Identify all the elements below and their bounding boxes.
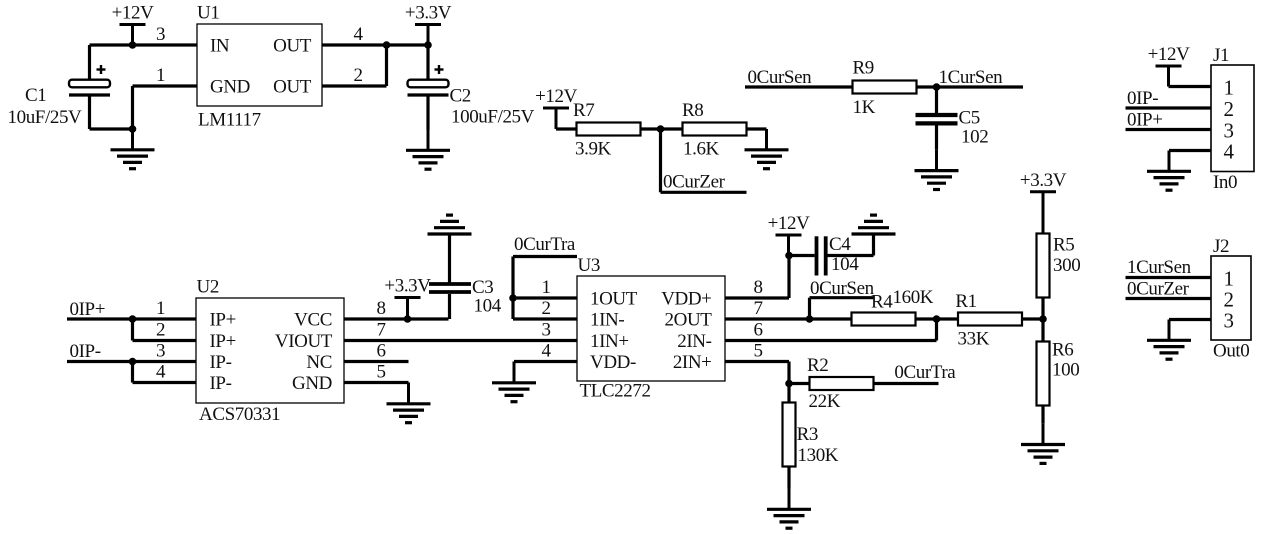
J1 pin number 1 — [1223, 76, 1233, 100]
svg-text:8: 8 — [753, 277, 762, 298]
svg-text:VDD+: VDD+ — [661, 289, 711, 310]
svg-text:130K: 130K — [798, 445, 839, 466]
capacitor C3 top lead — [448, 234, 451, 283]
capacitor C1 top lead — [88, 45, 91, 80]
svg-text:33K: 33K — [958, 329, 990, 350]
svg-text:0CurZer: 0CurZer — [663, 172, 726, 193]
wire 0IP- to U2 pin3 — [67, 360, 196, 363]
net label 1CurSen — [939, 67, 1004, 88]
U1 pin name IN — [210, 36, 230, 57]
J2 designator — [1213, 236, 1229, 257]
U1 pin number 2 — [353, 65, 362, 86]
wire U2 pin2 — [133, 319, 197, 341]
svg-text:6: 6 — [376, 341, 385, 362]
svg-text:0CurTra: 0CurTra — [514, 234, 576, 255]
svg-text:U2: U2 — [197, 277, 219, 298]
U3 pin name 2IN- — [677, 331, 711, 352]
svg-text:2: 2 — [353, 65, 362, 86]
wire C4 right lead — [828, 234, 874, 256]
U3 pin name VDD+ — [661, 289, 711, 310]
net label 0CurTra (U3) — [514, 234, 576, 255]
U2 pin name IP- (3) — [210, 352, 232, 373]
svg-text:GND: GND — [210, 77, 250, 98]
U3 pin number 1 — [541, 277, 550, 298]
svg-text:4: 4 — [541, 341, 551, 362]
svg-text:0CurSen: 0CurSen — [810, 278, 875, 299]
J2 pin number 2 — [1223, 288, 1233, 312]
wire U3 2IN- pin6 — [725, 319, 937, 341]
net label 0CurTra (R2) — [894, 362, 956, 383]
resistor R3 labels — [797, 424, 839, 466]
svg-text:J1: J1 — [1213, 45, 1229, 66]
svg-text:1CurSen: 1CurSen — [939, 67, 1004, 88]
U2 part ACS70331 — [199, 404, 280, 425]
U3 pin name 2OUT — [665, 310, 713, 331]
power +3.3V rail (U2) — [384, 276, 431, 320]
wire R2 chain 0CurTra — [789, 382, 939, 385]
svg-text:2IN-: 2IN- — [677, 331, 711, 352]
U2 pin name VIOUT — [275, 331, 333, 352]
svg-text:0IP-: 0IP- — [1127, 88, 1158, 109]
svg-text:102: 102 — [961, 127, 988, 148]
power +3.3V rail (R5) — [1020, 170, 1067, 234]
capacitor C2 label — [450, 86, 535, 128]
U1 part LM1117 — [198, 110, 261, 131]
U3 designator — [578, 255, 600, 276]
resistor R3 — [783, 403, 796, 467]
U2 pin name IP+ (1) — [210, 310, 236, 331]
node U3 pin1 junction — [509, 294, 517, 302]
resistor R6 labels — [1052, 340, 1079, 381]
ground (R3) — [767, 489, 811, 529]
capacitor C3 labels — [472, 277, 502, 317]
svg-text:+12V: +12V — [1148, 44, 1191, 65]
svg-text:2: 2 — [1223, 97, 1233, 121]
svg-text:U1: U1 — [197, 3, 219, 24]
svg-text:0IP+: 0IP+ — [70, 299, 106, 320]
svg-text:1.6K: 1.6K — [683, 138, 720, 159]
U3 pin number 4 — [541, 341, 551, 362]
connector J1 box — [1211, 65, 1254, 172]
U2 pin name IP+ (2) — [210, 331, 236, 352]
U1 pin number 4 — [353, 24, 363, 45]
sensor U2 box — [196, 298, 344, 403]
svg-text:OUT: OUT — [273, 77, 312, 98]
wire U3 pin4 — [514, 360, 577, 364]
wire 0CurTra line — [513, 255, 577, 258]
capacitor C2 — [408, 80, 449, 95]
svg-text:7: 7 — [753, 298, 762, 319]
svg-text:2OUT: 2OUT — [665, 310, 713, 331]
net label 0IP+ (J1) — [1127, 110, 1163, 131]
svg-text:6: 6 — [753, 320, 762, 341]
capacitor C1 polarity + — [97, 65, 106, 74]
svg-text:C4: C4 — [829, 234, 851, 255]
net label 0CurSen (U3) — [810, 278, 875, 299]
U3 pin number 6 — [753, 320, 762, 341]
wire R6 top — [1041, 319, 1044, 342]
J1 name In0 — [1213, 172, 1237, 193]
capacitor C2 top lead — [426, 45, 429, 80]
svg-text:R2: R2 — [807, 355, 828, 376]
svg-text:1K: 1K — [853, 97, 876, 118]
svg-text:100uF/25V: 100uF/25V — [451, 107, 535, 128]
wire J1 pin1 — [1169, 85, 1212, 88]
wire U3 VDD+ pin8 — [725, 256, 789, 299]
svg-text:IN: IN — [210, 36, 230, 57]
net label 1CurSen (J2) — [1127, 257, 1192, 278]
power +3.3V rail (U1 output) — [405, 3, 452, 46]
svg-text:2IN+: 2IN+ — [673, 352, 712, 373]
U2 pin number 5 — [376, 362, 385, 383]
resistor R9 — [853, 81, 917, 94]
svg-text:+12V: +12V — [535, 86, 578, 107]
capacitor C1 label — [8, 85, 83, 128]
op-amp U3 box — [577, 276, 725, 381]
svg-text:300: 300 — [1053, 255, 1080, 276]
svg-text:LM1117: LM1117 — [198, 110, 261, 131]
node 2OUT junction — [806, 315, 814, 323]
U3 pin number 3 — [541, 320, 550, 341]
svg-text:GND: GND — [292, 373, 332, 394]
node VCC junction — [404, 315, 412, 323]
U2 pin number 7 — [376, 320, 385, 341]
svg-text:1IN+: 1IN+ — [590, 331, 629, 352]
svg-text:0IP+: 0IP+ — [1127, 110, 1163, 131]
svg-text:R3: R3 — [797, 424, 818, 445]
net label 0IP- (J1) — [1127, 88, 1158, 109]
ground (U2 GND) — [387, 383, 431, 423]
J1 pin number 4 — [1223, 140, 1234, 164]
ground (C5) — [915, 150, 959, 190]
svg-text:J2: J2 — [1213, 236, 1229, 257]
svg-text:3: 3 — [156, 341, 165, 362]
svg-text:OUT: OUT — [273, 36, 312, 57]
svg-text:R9: R9 — [853, 58, 874, 79]
U2 pin name GND — [292, 373, 332, 394]
wire +12V to U1 pin3 — [90, 43, 198, 46]
capacitor C5 — [916, 115, 958, 123]
svg-text:+3.3V: +3.3V — [384, 276, 431, 297]
wire R5 bottom — [1041, 298, 1044, 320]
wire J1 pin4 — [1169, 149, 1211, 152]
U3 pin number 2 — [541, 298, 550, 319]
svg-text:10uF/25V: 10uF/25V — [8, 107, 83, 128]
svg-text:In0: In0 — [1213, 172, 1237, 193]
svg-text:2: 2 — [156, 320, 165, 341]
U2 pin name VCC — [294, 310, 332, 331]
capacitor C3 bottom lead — [448, 294, 451, 319]
resistor R5 — [1037, 234, 1050, 298]
resistor R4 — [852, 313, 916, 326]
wire U3 2OUT pin7 chain — [725, 317, 958, 320]
resistor R9 labels — [853, 58, 876, 118]
wire 0CurTra to pins 1-2 — [513, 257, 577, 320]
U3 pin name 1IN+ — [590, 331, 629, 352]
svg-text:7: 7 — [376, 320, 385, 341]
node R2/R3 junction — [785, 380, 793, 388]
svg-text:TLC2272: TLC2272 — [580, 381, 651, 402]
capacitor C5 top lead — [935, 87, 938, 113]
resistor R2 — [810, 377, 874, 390]
node R9/C5 junction — [933, 83, 941, 91]
node C2 junction — [424, 41, 432, 49]
svg-text:3: 3 — [541, 320, 550, 341]
net label 0CurZer — [663, 172, 726, 193]
svg-text:VDD-: VDD- — [590, 352, 636, 373]
resistor R7 labels — [573, 100, 612, 159]
resistor R8 — [683, 123, 747, 136]
U2 pin name NC — [306, 352, 332, 373]
wire 0CurSen stub — [810, 298, 875, 319]
capacitor C1 — [69, 80, 110, 95]
wire J2 pin1 1CurSen — [1126, 276, 1212, 279]
ground (J1) — [1147, 151, 1191, 191]
wire U1 OUT pin4 — [322, 43, 428, 46]
svg-text:1: 1 — [156, 65, 165, 86]
connector J2 box — [1211, 256, 1251, 340]
svg-text:+3.3V: +3.3V — [405, 3, 452, 24]
svg-text:VCC: VCC — [294, 310, 332, 331]
U2 pin number 4 — [156, 362, 166, 383]
svg-text:U3: U3 — [578, 255, 600, 276]
svg-text:5: 5 — [376, 362, 385, 383]
wire J1 pin3 0IP+ — [1126, 128, 1212, 131]
svg-text:2: 2 — [541, 298, 550, 319]
svg-text:IP+: IP+ — [210, 310, 236, 331]
svg-text:1: 1 — [1223, 76, 1233, 100]
svg-text:+3.3V: +3.3V — [1020, 170, 1067, 191]
U3 pin number 7 — [753, 298, 762, 319]
resistor R4 labels — [871, 287, 934, 313]
wire R7-R8 chain — [556, 127, 767, 130]
capacitor C4 labels — [829, 234, 859, 275]
svg-text:0CurSen: 0CurSen — [748, 67, 813, 88]
U3 pin number 8 — [753, 277, 762, 298]
wire 0IP+ to U2 pin1 — [67, 317, 196, 320]
capacitor C4 — [817, 236, 826, 275]
resistor R8 labels — [682, 100, 720, 159]
U3 pin name 1IN- — [590, 310, 624, 331]
node +12V junction — [129, 41, 137, 49]
node C4 junction — [785, 252, 793, 260]
resistor R7 — [577, 123, 641, 136]
power +12V rail (U1 input) — [112, 3, 155, 46]
capacitor C5 bottom lead — [935, 126, 938, 150]
svg-text:0IP-: 0IP- — [70, 341, 101, 362]
wire U1 OUT pin2 — [322, 45, 387, 86]
wire U1 GND pin1 — [133, 86, 198, 129]
svg-text:R1: R1 — [955, 291, 976, 312]
power +12V rail (J1) — [1148, 44, 1191, 87]
J1 designator — [1213, 45, 1229, 66]
svg-text:IP-: IP- — [210, 373, 232, 394]
U3 pin name 2IN+ — [673, 352, 712, 373]
svg-text:1: 1 — [156, 298, 165, 319]
J2 pin number 1 — [1223, 267, 1233, 291]
wire U3 2IN+ pin5 — [725, 362, 789, 384]
svg-text:0CurZer: 0CurZer — [1127, 279, 1190, 300]
node C1/GND junction — [129, 125, 137, 133]
svg-text:100: 100 — [1052, 360, 1079, 381]
svg-text:IP-: IP- — [210, 352, 232, 373]
svg-text:1OUT: 1OUT — [590, 289, 638, 310]
svg-text:4: 4 — [156, 362, 166, 383]
svg-text:+12V: +12V — [768, 213, 811, 234]
wire J2 pin2 0CurZer — [1126, 297, 1212, 300]
U1 designator — [197, 3, 219, 24]
capacitor C3 — [429, 284, 471, 292]
wire U2 pin4 — [133, 362, 197, 383]
wire R3 top — [787, 384, 790, 403]
svg-text:3: 3 — [1223, 309, 1233, 333]
node R5/R6 junction — [1039, 315, 1047, 323]
svg-text:IP+: IP+ — [210, 331, 236, 352]
ground (U3 VDD-) — [492, 362, 536, 402]
power +12V rail (C4) — [768, 213, 811, 256]
U1 pin name OUT (top) — [273, 36, 312, 57]
svg-text:Out0: Out0 — [1213, 341, 1249, 362]
svg-text:C1: C1 — [25, 85, 46, 106]
U3 pin name VDD- — [590, 352, 636, 373]
capacitor C1 bottom lead — [90, 97, 133, 130]
power +12V rail (R7) — [535, 86, 578, 129]
wire 0CurZer stub — [661, 129, 747, 192]
node OUT pins junction — [383, 41, 391, 49]
U3 pin number 5 — [753, 341, 762, 362]
U2 pin name IP- (4) — [210, 373, 232, 394]
U2 pin number 2 — [156, 320, 165, 341]
U2 pin number 1 — [156, 298, 165, 319]
ground (C3, pointing up) — [428, 215, 472, 234]
U1 pin number 3 — [156, 24, 165, 45]
net label 0CurSen — [748, 67, 813, 88]
U1 pin name OUT (bottom) — [273, 77, 312, 98]
net label 0IP+ (U2) — [70, 299, 106, 320]
svg-text:ACS70331: ACS70331 — [199, 404, 280, 425]
ground (J2) — [1147, 320, 1191, 360]
node R7/R8 junction — [657, 125, 665, 133]
svg-text:+12V: +12V — [112, 3, 155, 24]
svg-text:1IN-: 1IN- — [590, 310, 624, 331]
wire R3 bottom — [787, 467, 790, 489]
U2 pin number 3 — [156, 341, 165, 362]
ground (U1/C1) — [111, 129, 155, 169]
node 0IP+ junction — [129, 315, 137, 323]
wire R1 to R5/R6 — [1022, 317, 1043, 320]
U1 pin name GND — [210, 77, 250, 98]
J2 pin number 3 — [1223, 309, 1233, 333]
wire R6 bottom — [1041, 406, 1044, 424]
ground (C4, pointing up) — [852, 215, 896, 234]
ground (R6) — [1021, 424, 1065, 464]
svg-text:0CurTra: 0CurTra — [894, 362, 956, 383]
U2 pin number 6 — [376, 341, 385, 362]
svg-text:R5: R5 — [1053, 234, 1074, 255]
op-amp U1 box — [197, 24, 322, 106]
U3 part TLC2272 — [580, 381, 651, 402]
resistor R1 labels — [955, 291, 989, 350]
resistor R6 — [1037, 342, 1050, 406]
resistor R2 labels — [807, 355, 841, 412]
wire U2 GND pin5 — [344, 381, 409, 385]
capacitor C2 polarity + — [435, 65, 444, 74]
svg-text:R7: R7 — [573, 100, 594, 121]
ground (C2) — [406, 130, 450, 170]
U2 designator — [197, 277, 219, 298]
wire J1 pin2 0IP- — [1126, 106, 1212, 109]
wire U2 VIOUT pin7 to U3 pin3 — [344, 339, 577, 342]
svg-text:R6: R6 — [1052, 340, 1073, 361]
wire U2 VCC pin8 — [344, 317, 449, 320]
node 0IP- junction — [129, 358, 137, 366]
svg-text:4: 4 — [1223, 140, 1234, 164]
J1 pin number 2 — [1223, 97, 1233, 121]
svg-text:22K: 22K — [809, 391, 841, 412]
wire C4 left lead — [789, 254, 815, 257]
svg-text:1CurSen: 1CurSen — [1127, 257, 1192, 278]
U1 pin number 1 — [156, 65, 165, 86]
net label 0IP- (U2) — [70, 341, 101, 362]
U3 pin name 1OUT — [590, 289, 638, 310]
ground (R8) — [745, 129, 789, 169]
U2 pin number 8 — [376, 298, 385, 319]
svg-text:5: 5 — [753, 341, 762, 362]
svg-text:1: 1 — [541, 277, 550, 298]
svg-text:VIOUT: VIOUT — [275, 331, 333, 352]
svg-text:NC: NC — [306, 352, 332, 373]
wire 0CurSen-R9-1CurSen — [745, 85, 1023, 88]
wire J2 pin3 — [1169, 318, 1211, 321]
svg-text:R4: R4 — [871, 292, 893, 313]
svg-text:3: 3 — [156, 24, 165, 45]
capacitor C2 bottom lead — [426, 97, 429, 130]
J2 name Out0 — [1213, 341, 1249, 362]
svg-text:8: 8 — [376, 298, 385, 319]
J1 pin number 3 — [1223, 119, 1233, 143]
net label 0CurZer (J2) — [1127, 279, 1190, 300]
svg-text:C2: C2 — [450, 86, 471, 107]
svg-text:4: 4 — [353, 24, 363, 45]
svg-text:104: 104 — [474, 296, 502, 317]
svg-text:160K: 160K — [893, 287, 934, 308]
capacitor C5 labels — [959, 108, 989, 148]
wire U2 NC pin6 stub — [344, 360, 409, 363]
resistor R5 labels — [1053, 234, 1080, 275]
node R4/R1 junction — [933, 315, 941, 323]
svg-text:3.9K: 3.9K — [575, 138, 612, 159]
resistor R1 — [958, 313, 1022, 326]
svg-text:C5: C5 — [959, 108, 980, 129]
svg-text:R8: R8 — [682, 100, 703, 121]
